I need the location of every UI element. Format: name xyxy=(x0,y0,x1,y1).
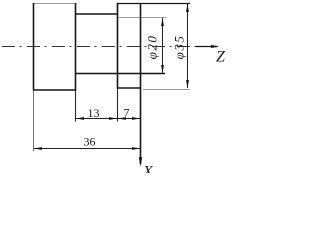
arrow phi20 bottom xyxy=(161,65,164,73)
dimension line phi35 (vertical) xyxy=(187,4,189,88)
centerline (dash-dot axis) xyxy=(2,46,196,48)
extension line below left cylinder for dim 36 xyxy=(33,91,35,152)
arrow phi20 top xyxy=(161,18,164,26)
phi20 upper extension line (grey) xyxy=(118,17,166,19)
right flange top edge plus phi35 upper extension line xyxy=(117,3,190,5)
extension line below x=75 for dim 13 xyxy=(75,91,77,122)
right flange bottom edge xyxy=(117,87,141,89)
svg-text:7: 7 xyxy=(124,106,130,120)
dimension line 36 xyxy=(34,148,140,150)
phi35 lower extension line (grey) xyxy=(143,89,190,91)
svg-text:13: 13 xyxy=(88,106,100,120)
middle cylinder bottom edge plus phi20 lower extension line xyxy=(75,73,165,75)
right flange left edge xyxy=(117,3,119,89)
left cylinder top edge xyxy=(33,3,76,5)
arrow 7 left xyxy=(118,117,126,120)
left cylinder right edge xyxy=(75,3,77,91)
extension line below x=117 for dims 13 and 7 xyxy=(117,89,119,122)
Z axis solid segment xyxy=(196,46,217,48)
dimension line phi20 (vertical) xyxy=(162,18,164,73)
svg-text:X: X xyxy=(142,164,154,174)
svg-text:φ20: φ20 xyxy=(145,35,160,60)
arrow 36 right xyxy=(132,147,140,150)
left cylinder left edge xyxy=(33,3,35,91)
arrow 7 right xyxy=(132,117,140,120)
svg-text:36: 36 xyxy=(84,135,96,149)
right flange right edge continuing as X axis line xyxy=(140,3,142,164)
svg-text:φ35: φ35 xyxy=(172,35,187,60)
arrow phi35 top xyxy=(186,4,189,12)
arrow 13 right xyxy=(109,117,117,120)
Z axis arrowhead xyxy=(211,45,220,48)
dimension line 7 xyxy=(118,118,140,120)
arrow 13 left xyxy=(76,117,84,120)
arrow 36 left xyxy=(34,147,42,150)
svg-text:Z: Z xyxy=(216,49,225,66)
left cylinder bottom edge xyxy=(33,89,76,91)
X axis arrowhead xyxy=(139,157,142,166)
arrow phi35 bottom xyxy=(186,80,189,88)
middle cylinder top edge xyxy=(75,13,118,15)
dimension line 13 xyxy=(76,118,117,120)
